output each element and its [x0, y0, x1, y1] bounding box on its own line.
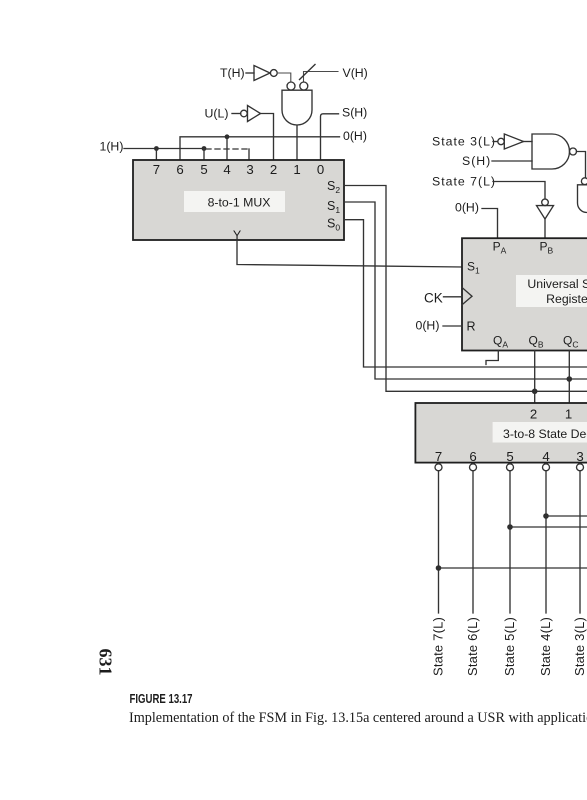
gate G3 (clipped at page edge): [578, 185, 587, 213]
wire decoder output 6: [472, 471, 474, 613]
wire MUX S1 to feedback bus: [344, 202, 587, 379]
inverter for U(L): [241, 110, 248, 117]
junction dot QC to S1 line: [567, 376, 573, 382]
wire output 5 tap: [510, 526, 587, 528]
wire T(H) to inverter: [246, 72, 254, 74]
svg-text:4: 4: [223, 162, 230, 177]
svg-text:3: 3: [246, 162, 253, 177]
svg-text:0(H): 0(H): [455, 201, 479, 215]
wire input 7 stub: [155, 149, 157, 161]
svg-text:R: R: [467, 320, 476, 334]
wire U(L) to inverter: [232, 113, 241, 115]
svg-text:FIGURE 13.17: FIGURE 13.17: [130, 693, 193, 707]
junction dot QB to S2 line: [532, 389, 538, 395]
svg-text:4: 4: [542, 449, 549, 464]
svg-text:State 5(L): State 5(L): [502, 617, 517, 676]
svg-text:2: 2: [270, 162, 277, 177]
output bubble 5: [507, 464, 514, 471]
svg-text:Universal Shift: Universal Shift: [527, 277, 587, 291]
wire State 3(L) to inverter: [493, 141, 498, 143]
output bubble 4: [543, 464, 550, 471]
wire G1 output to MUX input 1: [296, 125, 298, 160]
output bubble 6: [470, 464, 477, 471]
svg-text:U(L): U(L): [205, 106, 229, 120]
wire dashed 1(H) continuation to input 3: [206, 148, 249, 150]
wire input 3 stub: [248, 149, 250, 160]
AND gate G1: [282, 90, 312, 125]
wire 0(H) to R input: [443, 325, 462, 327]
output bubble 3: [577, 464, 584, 471]
wire decoder output 4: [545, 471, 547, 613]
inverter for State 7(L): [542, 199, 549, 206]
svg-text:6: 6: [176, 162, 183, 177]
wire 0(H) line to MUX inputs 6 and 4: [180, 137, 340, 160]
wire decoder output 7: [438, 471, 440, 613]
svg-text:State 4(L): State 4(L): [538, 617, 553, 676]
wire inverter output to MUX input 2: [261, 114, 274, 161]
wire MUX Y output to USR S1 input: [237, 240, 462, 267]
wire decoder output 5: [509, 471, 511, 613]
svg-text:3: 3: [576, 449, 583, 464]
junction dot at input 4: [225, 134, 230, 139]
inverter for T(H): [254, 66, 270, 81]
svg-text:7: 7: [153, 162, 160, 177]
svg-text:1: 1: [293, 162, 300, 177]
svg-text:0: 0: [317, 162, 324, 177]
wire inverter to USR PB: [544, 219, 546, 238]
wire inverter to NAND input: [524, 141, 533, 143]
wire input 5 stub: [203, 149, 205, 161]
wire QA hook: [486, 351, 498, 365]
NAND gate G2: [532, 134, 569, 169]
svg-text:5: 5: [200, 162, 207, 177]
3-to-8 State Decoder box U3: [415, 403, 587, 463]
svg-text:2: 2: [530, 406, 537, 421]
svg-text:Register: Register: [546, 292, 587, 306]
junction dot output 5 tap: [507, 524, 513, 530]
inverter for State 3(L): [498, 138, 504, 144]
svg-text:State 3(L): State 3(L): [572, 617, 587, 676]
svg-text:State 7(L): State 7(L): [432, 174, 496, 188]
svg-text:S(H): S(H): [342, 106, 367, 120]
wire MUX S0 to feedback bus: [344, 220, 587, 367]
gate G3 input bubble: [581, 178, 587, 185]
svg-text:V(H): V(H): [343, 66, 368, 80]
Universal Shift Register box U2: [462, 238, 587, 350]
wire output 4 tap: [546, 515, 587, 517]
wire QB to decoder input 2: [534, 351, 536, 404]
svg-text:1: 1: [565, 406, 572, 421]
svg-text:6: 6: [469, 449, 476, 464]
wire inverter output to AND left input: [277, 73, 291, 82]
wire CK to clock input: [444, 296, 463, 298]
wire 1(H) line to MUX inputs 7 and 5: [124, 148, 204, 150]
junction dot output 7 tap: [436, 565, 442, 571]
output bubble 7: [435, 464, 442, 471]
svg-text:631: 631: [96, 649, 116, 676]
AND gate G1 input bubbles: [287, 82, 295, 90]
wire State 7(L) to inverter: [493, 182, 545, 200]
polarity slash on V(H) wire: [300, 65, 316, 80]
wire input 4 stub: [226, 137, 228, 160]
svg-text:Implementation of the FSM in F: Implementation of the FSM in Fig. 13.15a…: [129, 710, 587, 726]
svg-text:CK: CK: [424, 290, 443, 305]
svg-text:State 6(L): State 6(L): [465, 617, 480, 676]
wire S(H) to NAND input: [492, 160, 532, 162]
svg-text:State 3(L): State 3(L): [432, 134, 496, 148]
svg-text:0(H): 0(H): [416, 319, 440, 333]
svg-text:7: 7: [435, 449, 442, 464]
svg-text:8-to-1 MUX: 8-to-1 MUX: [208, 196, 271, 210]
junction dot at input 5: [202, 146, 207, 151]
wire decoder output 3: [579, 471, 581, 613]
junction dot output 4 tap: [543, 513, 549, 519]
svg-text:State 7(L): State 7(L): [431, 617, 446, 676]
wire output 7 tap: [439, 567, 587, 569]
junction dot at input 7: [154, 146, 159, 151]
svg-text:1(H): 1(H): [100, 140, 124, 154]
wire QC to decoder input 1: [568, 351, 570, 404]
wire MUX S2 to feedback bus: [344, 186, 587, 392]
svg-text:3-to-8 State Decoder: 3-to-8 State Decoder: [503, 427, 587, 441]
8-to-1 MUX box U1: [133, 160, 344, 240]
wire 0(H) to USR PA: [482, 209, 498, 239]
wire NAND output to gate G3: [577, 152, 586, 178]
svg-text:T(H): T(H): [220, 66, 245, 80]
svg-text:0(H): 0(H): [343, 129, 367, 143]
wire S(H) to MUX input 0: [321, 114, 339, 160]
svg-text:5: 5: [506, 449, 513, 464]
svg-text:S(H): S(H): [462, 154, 491, 168]
wire V(H) to AND right input: [304, 72, 339, 82]
clock wedge: [462, 288, 472, 305]
